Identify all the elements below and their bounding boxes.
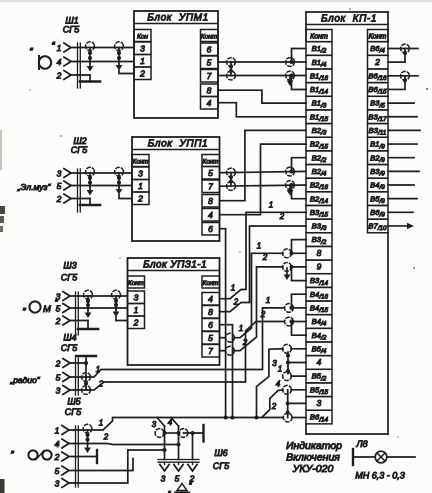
- cable shield boundary at Ш1: [78, 43, 81, 88]
- shield hook В6/4 to pin 2: [388, 49, 407, 63]
- wire Ш1-1 to U1 pin3: [71, 47, 134, 49]
- U4 right pin В6/16: [368, 69, 389, 83]
- hook В3/2 to row 8 wire: [290, 240, 307, 256]
- cable shield boundary at Ш5: [76, 426, 79, 487]
- svg-text:СГ5: СГ5: [61, 343, 78, 353]
- svg-text:Конт: Конт: [128, 280, 144, 287]
- hook В1/2 to В1/4 wire: [290, 49, 307, 65]
- U4 left pin В1/4: [306, 55, 332, 69]
- U4 right pin 2: [368, 55, 389, 69]
- U4 left pin В1/16: [306, 69, 332, 83]
- U3 left pin header Конт: [128, 276, 145, 288]
- wire Ш1-4 to U1 pin1: [71, 61, 134, 63]
- svg-text:1: 1: [57, 43, 62, 53]
- U4 right pin В3/17: [368, 110, 389, 124]
- U2 right pin 4: [202, 209, 220, 222]
- U1 right pin 4: [201, 97, 219, 110]
- svg-text:1: 1: [231, 284, 235, 293]
- svg-text:„: „: [168, 484, 172, 493]
- connector Ш2 labels: [71, 136, 88, 155]
- svg-text:3: 3: [55, 479, 60, 489]
- wire 2-4 riser to В5/15: [262, 390, 306, 418]
- U4 left pin 4: [306, 356, 332, 370]
- wire 3 branch to Ш6: [157, 418, 165, 427]
- Ш6 pin 3: [160, 462, 169, 483]
- Ш3 pin 3: [56, 292, 70, 302]
- long wire into В6/14: [282, 417, 284, 419]
- shield tie at x=119 to U2 pin2: [115, 167, 132, 198]
- U4 right pin В5/9: [368, 192, 389, 206]
- Ш2 pin 5: [57, 181, 71, 191]
- svg-text:СГ5: СГ5: [63, 25, 80, 35]
- Ш5 pin 5: [55, 466, 69, 476]
- block U4 Блок КП-1: [306, 12, 388, 434]
- U4 right pin В7/10: [368, 219, 389, 233]
- cable shield boundary at Ш2: [78, 169, 81, 212]
- svg-text:Блок УПП1: Блок УПП1: [148, 139, 208, 150]
- connector Ш6 labels: [213, 448, 230, 471]
- shield hook В6/16 to В6/15: [388, 76, 407, 90]
- U4 left pin В4/4: [306, 315, 332, 329]
- U2 right pin 7: [202, 180, 220, 193]
- shield circle at U3 pin5: [226, 333, 235, 342]
- U4 left pin 3: [306, 397, 332, 411]
- shield circle on В2/16 wire left: [227, 182, 236, 191]
- chassis bar above Ш4 shield: [76, 356, 96, 363]
- U4 left pin В2/2: [306, 151, 332, 165]
- hook В4/16 to wire 1: [290, 294, 307, 310]
- pickup symbol at Ш3: [22, 298, 58, 315]
- svg-text:Конт: Конт: [133, 159, 149, 166]
- wire from В1/9: [388, 143, 417, 145]
- U4 left pin В3/14: [306, 274, 332, 288]
- wire U2 pin4 to U4 В2/15: [220, 144, 307, 215]
- wire from В3/5: [388, 102, 414, 104]
- wire Ш1-2 stub: [71, 74, 90, 76]
- shield drain arrow below row 9 circle: [286, 268, 288, 276]
- svg-text:2: 2: [260, 310, 266, 319]
- shield tie between В1/4 and В1/16 wires: [229, 62, 233, 76]
- U4 right pin В2/9: [368, 151, 389, 165]
- shield drain arrow below В1/16 wire: [289, 77, 291, 83]
- Ш4 pin 3: [56, 386, 70, 396]
- wire from В4/9: [388, 184, 414, 186]
- label радио: [9, 375, 40, 385]
- svg-text:Конт: Конт: [310, 34, 328, 41]
- Ш2 pin 2: [56, 194, 71, 204]
- wire from В6/4: [388, 44, 418, 53]
- svg-text:2: 2: [98, 380, 104, 389]
- lamp terminal bar: [352, 449, 354, 465]
- svg-text:3: 3: [138, 169, 143, 179]
- svg-text:„радио“: „радио“: [9, 375, 40, 385]
- wire Ш2-2 stub: [71, 198, 90, 200]
- svg-text:2: 2: [279, 212, 285, 221]
- wire Ш5-2 to chassis bar: [69, 450, 97, 463]
- wire U3 pin8 to U4 В3/3: [220, 226, 307, 312]
- U3 left pin 2: [128, 316, 145, 329]
- label Эл.муз: [17, 182, 52, 192]
- svg-text:1: 1: [269, 201, 273, 210]
- svg-text:4: 4: [317, 357, 322, 367]
- U4 left pin В3/3: [306, 219, 332, 233]
- svg-text:1: 1: [134, 305, 139, 315]
- svg-text:2: 2: [374, 57, 380, 67]
- svg-text:Включения: Включения: [286, 452, 340, 464]
- svg-text:2: 2: [103, 433, 109, 442]
- wire 2 from Ш5 pin4 to Ш6: [69, 443, 181, 447]
- Ш5 pin 2: [54, 452, 69, 462]
- svg-text:2: 2: [56, 71, 62, 81]
- shield pair symbol at Ш6: [155, 429, 188, 438]
- U4 left pin В5/15: [306, 383, 332, 397]
- shield circle at U3 pin7: [226, 346, 235, 355]
- shield tie at x=116 to U3 pin2: [112, 290, 128, 320]
- shield drain at Ш4: [84, 363, 88, 390]
- svg-text:8: 8: [208, 196, 213, 206]
- wire U1 pin8 to U4 В1/3: [218, 90, 306, 103]
- wire U3 pin6 down the channel: [220, 325, 233, 418]
- svg-text:4: 4: [207, 98, 212, 108]
- svg-text:5: 5: [55, 466, 60, 476]
- svg-text:3: 3: [56, 292, 61, 302]
- hook В3/14 to row 9 wire: [290, 265, 307, 281]
- wire Ш2-3 to U2 pin3: [71, 172, 132, 174]
- svg-text:Ш3: Ш3: [63, 261, 76, 271]
- shield circle before В5/15: [283, 385, 292, 394]
- U4 right pin В4/9: [368, 178, 389, 192]
- hook В2/14 to В2/16 wire: [290, 183, 307, 199]
- U4 left pin 8: [306, 246, 332, 260]
- U4 right pin В6/9: [368, 205, 389, 219]
- shield tie at x=88 (Ш3): [84, 290, 93, 318]
- Ш6 pin 5: [174, 462, 183, 483]
- svg-text:2: 2: [133, 318, 139, 328]
- Ш6 conductor C from shield: [191, 431, 195, 460]
- U4 left pin В6/14: [306, 410, 332, 424]
- cable shield boundary at Ш4: [76, 358, 79, 395]
- shield circle on В2/4 wire left: [227, 168, 236, 177]
- wire U2 pin7 to U4 В2/16: [220, 185, 307, 186]
- wire from В3/17: [388, 116, 417, 118]
- wire from В6/9: [388, 211, 413, 213]
- svg-text:1: 1: [99, 419, 103, 428]
- shield circle before В5/2: [283, 372, 292, 381]
- svg-text:1: 1: [55, 426, 60, 436]
- svg-text:6: 6: [207, 45, 212, 55]
- svg-text:1: 1: [278, 365, 282, 374]
- shield tie at x=90 (Ш2): [86, 167, 95, 195]
- svg-text:4: 4: [208, 294, 213, 304]
- connector Ш5 labels: [65, 397, 82, 418]
- cable shield boundary at Ш6: [158, 460, 199, 463]
- wire U2 pin8 to U4 В2/3: [220, 130, 307, 200]
- svg-text:3: 3: [161, 474, 166, 484]
- svg-text:„: „: [29, 41, 33, 52]
- Ш5 pin 1: [55, 426, 69, 436]
- shield circle on В1/4 wire left: [227, 58, 236, 67]
- shield circle on В2/4 wire right: [286, 167, 295, 176]
- U1 left pin header Конт: [134, 30, 151, 42]
- svg-text:3: 3: [56, 386, 61, 396]
- U1 left pin 3: [134, 42, 151, 55]
- U2 left pin header Конт: [132, 155, 149, 167]
- U1 right pin 7: [201, 70, 219, 83]
- wire Ш5-3 to Ш6 pin3: [69, 448, 167, 483]
- svg-text:6: 6: [208, 320, 213, 330]
- svg-text:5: 5: [208, 333, 213, 343]
- svg-text:Конт: Конт: [201, 34, 218, 41]
- ground at Ш1 shield: [80, 75, 100, 82]
- shield tie between В2/4 and В2/16 wires: [229, 173, 233, 187]
- wire 2 from Ш4 pin3 to U4 В4/4: [70, 322, 306, 391]
- U1 right pin header Конт: [201, 30, 219, 42]
- U1 right pin 8: [201, 84, 219, 97]
- cable shield boundary at Ш3: [76, 292, 79, 335]
- wire 4 branch to Ш6: [171, 418, 179, 427]
- svg-text:3: 3: [140, 44, 145, 54]
- U4 left pin В4/15: [306, 301, 332, 315]
- wire U3 pin4 to U4 В3/15: [220, 212, 307, 298]
- svg-text:Конт: Конт: [203, 159, 219, 166]
- svg-text:„: „: [10, 444, 14, 455]
- svg-text:7: 7: [207, 71, 212, 81]
- svg-text:2: 2: [56, 194, 62, 204]
- svg-text:Конт: Конт: [203, 280, 219, 287]
- Ш4 pin 5: [56, 373, 70, 383]
- U2 right pin 6: [202, 223, 220, 236]
- U4 left pin header Конт: [306, 30, 332, 42]
- svg-text:5: 5: [56, 373, 61, 383]
- wire into В6/14 pin: [292, 417, 306, 419]
- svg-text:„Эл.муз“: „Эл.муз“: [17, 182, 52, 192]
- U4 left pin В4/2: [306, 328, 332, 342]
- U4 right pin В3/9: [368, 165, 389, 179]
- shield tie at Ш5: [83, 424, 92, 453]
- shield tie at x=90 (Ш1): [86, 42, 95, 72]
- U4 left pin В1/15: [306, 110, 332, 124]
- svg-text:2: 2: [55, 359, 61, 369]
- shield circle before row 9: [283, 263, 292, 272]
- svg-text:Индикатор: Индикатор: [286, 440, 342, 452]
- Ш5 pin 3: [55, 479, 69, 489]
- hook В1/14 to В1/16 wire: [290, 74, 307, 90]
- wire from В3/9: [388, 170, 419, 172]
- feed wire to В5/4: [255, 349, 307, 420]
- svg-text:8: 8: [317, 248, 322, 258]
- svg-text:8: 8: [207, 86, 212, 96]
- wire 1 from U3 pin5 to U4 row 8: [220, 253, 307, 337]
- svg-text:Ш5: Ш5: [67, 397, 81, 407]
- wire 2 from U3 pin7 to U4 row 9: [220, 267, 307, 351]
- svg-text:М: М: [43, 304, 51, 315]
- svg-text:Блок КП-1: Блок КП-1: [321, 14, 377, 25]
- U1 left pin 2: [134, 67, 151, 80]
- U2 left pin 3: [132, 167, 149, 180]
- svg-text:7: 7: [208, 346, 213, 356]
- svg-text:8: 8: [208, 307, 213, 317]
- Ш5 pin 4: [55, 439, 69, 449]
- U4 right pin В1/9: [368, 137, 389, 151]
- svg-text:3: 3: [272, 359, 277, 368]
- shield circle before В4/15: [285, 304, 294, 313]
- loudspeaker symbol under Ш6: [168, 481, 193, 493]
- svg-text:5: 5: [207, 58, 212, 68]
- svg-text:УКУ-020: УКУ-020: [292, 463, 334, 475]
- U2 left pin 2: [132, 192, 149, 205]
- U3 right pin 4: [202, 293, 220, 306]
- wire Ш3-2 stub: [70, 320, 88, 322]
- svg-text:7: 7: [208, 182, 213, 192]
- U4 left pin В2/4: [306, 165, 332, 179]
- svg-text:5: 5: [175, 474, 180, 484]
- svg-text:2: 2: [55, 316, 61, 326]
- connector Ш4 labels: [61, 333, 78, 354]
- ground at Ш2 shield: [80, 199, 100, 206]
- wire to lamp Л8: [353, 456, 415, 458]
- U3 left pin 1: [128, 304, 145, 317]
- U3 right pin 5: [202, 332, 220, 345]
- svg-text:2: 2: [271, 402, 277, 411]
- connector Ш1 labels: [63, 16, 80, 35]
- U2 right pin header Конт: [202, 155, 220, 167]
- Ш6 pin 2: [188, 462, 197, 483]
- Ш3 pin 5: [56, 304, 70, 314]
- svg-text:1: 1: [239, 324, 243, 333]
- wire 1 from Ш4 pin5 to U4 В4/15: [70, 308, 306, 377]
- svg-text:СГ5: СГ5: [65, 407, 82, 417]
- U4 right pin header Конт: [368, 30, 389, 42]
- U4 left pin В2/3: [306, 124, 332, 138]
- U4 left pin В5/2: [306, 369, 332, 383]
- ground at Ш3 shield: [78, 321, 98, 330]
- shield bar В5/4 group: [286, 352, 290, 374]
- shield circle before row 8: [283, 249, 292, 258]
- U3 right pin 7: [202, 345, 220, 358]
- shield circle on В1/4 wire right: [286, 58, 295, 67]
- U3 right pin 8: [202, 306, 220, 319]
- shield circle before В6/14: [283, 413, 292, 422]
- svg-text:4: 4: [276, 380, 281, 389]
- Ш1 pin 1: [57, 43, 71, 53]
- shield tie at x=119 to U1 pin2: [115, 42, 134, 74]
- Ш6 shield to chassis: [184, 425, 204, 442]
- U4 left pin В5/4: [306, 342, 332, 356]
- connector Ш3 labels: [61, 261, 78, 283]
- wire Ш3-5 to U3 pin1: [70, 307, 128, 309]
- lamp Л8 symbol: [375, 451, 387, 463]
- shield circle on В1/16 wire right: [286, 71, 295, 80]
- wire from В6/16: [388, 71, 418, 80]
- U4 left pin В1/3: [306, 96, 332, 110]
- block U3 Блок УПЗ1-1: [128, 258, 220, 365]
- wire into В5/2: [291, 375, 306, 377]
- svg-text:„: „: [22, 301, 26, 312]
- U4 left pin 9: [306, 260, 332, 274]
- wire U1 pin4 to U4 В1/15: [218, 103, 306, 117]
- U4 right pin В3/11: [368, 124, 389, 138]
- U2 left pin 1: [132, 180, 149, 193]
- wire U1 pin5 to U4 В1/4: [218, 61, 306, 63]
- svg-text:Кон: Кон: [137, 34, 148, 41]
- wire from В5/9: [388, 198, 417, 200]
- svg-text:СГ5: СГ5: [71, 145, 88, 155]
- svg-text:3: 3: [57, 169, 62, 179]
- U4 right pin В3/5: [368, 96, 389, 110]
- shield circle on Ш4 wire 2: [82, 386, 91, 395]
- U4 left pin В2/16: [306, 178, 332, 192]
- svg-text:3: 3: [134, 293, 139, 303]
- block U2 Блок УПП1: [132, 137, 220, 241]
- svg-text:6: 6: [208, 224, 213, 234]
- svg-text:3: 3: [152, 420, 157, 429]
- stub to row 4 pin: [288, 362, 306, 364]
- svg-text:Л8: Л8: [355, 439, 367, 449]
- tape recorder symbol at Ш5: [10, 442, 59, 460]
- svg-text:1: 1: [266, 296, 270, 305]
- wire U2 pin6 down the channel: [220, 229, 226, 418]
- U1 right pin 6: [201, 43, 219, 56]
- wire Ш2-5 to U2 pin1: [71, 185, 132, 187]
- svg-text:4: 4: [55, 439, 60, 449]
- U4 left pin В3/15: [306, 205, 332, 219]
- U3 right pin 6: [202, 319, 220, 332]
- Ш6 conductor A: [164, 426, 166, 460]
- svg-text:4: 4: [57, 57, 62, 67]
- wire U1 pin7 to U4 В1/16: [218, 75, 306, 77]
- label Индикатор Включения УКУ-020: [286, 440, 342, 475]
- shield circle on Ш4 wire 1: [82, 373, 91, 382]
- svg-text:2: 2: [233, 298, 239, 307]
- U1 left pin 1: [134, 55, 151, 68]
- Ш1 pin 2: [56, 71, 71, 81]
- wire U2 pin5 to U4 В2/4: [220, 171, 307, 172]
- svg-text:4: 4: [168, 418, 173, 427]
- svg-text:Ш6: Ш6: [214, 448, 227, 458]
- wire Ш4-2 to shield: [70, 361, 88, 365]
- Ш1 pin 4: [57, 57, 71, 67]
- svg-text:Ш4: Ш4: [63, 333, 76, 343]
- svg-text:9: 9: [317, 262, 322, 272]
- wire Ш5-5 stub: [69, 459, 133, 471]
- Ш2 pin 3: [57, 169, 71, 179]
- svg-text:2: 2: [137, 194, 143, 204]
- U3 right pin header Конт: [202, 276, 220, 288]
- svg-text:Блок УПМ1: Блок УПМ1: [147, 13, 209, 24]
- Ш6 conductor B: [178, 426, 180, 460]
- svg-text:Конт: Конт: [369, 34, 387, 41]
- U1 right pin 5: [201, 56, 219, 69]
- svg-text:3: 3: [317, 398, 322, 408]
- svg-text:2: 2: [262, 253, 268, 262]
- microphone symbol at Ш1: [29, 41, 55, 69]
- svg-text:1: 1: [140, 56, 145, 66]
- svg-text:5: 5: [56, 304, 61, 314]
- U4 right pin В6/15: [368, 83, 389, 97]
- U4 left pin В1/14: [306, 83, 332, 97]
- shield circle before В5/4: [283, 344, 292, 353]
- hook В4/2 to wire 2: [290, 320, 307, 336]
- svg-text:Блок УПЗ1-1: Блок УПЗ1-1: [143, 260, 207, 271]
- wire Ш3-3 to U3 pin3: [70, 295, 128, 297]
- svg-text:1: 1: [138, 181, 143, 191]
- svg-text:СГ5: СГ5: [213, 461, 230, 471]
- svg-text:2: 2: [242, 338, 248, 347]
- svg-text:2: 2: [54, 452, 60, 462]
- svg-text:1: 1: [96, 365, 100, 374]
- svg-text:МН 6,3 - 0,3: МН 6,3 - 0,3: [355, 471, 405, 481]
- U4 left pin В4/16: [306, 287, 332, 301]
